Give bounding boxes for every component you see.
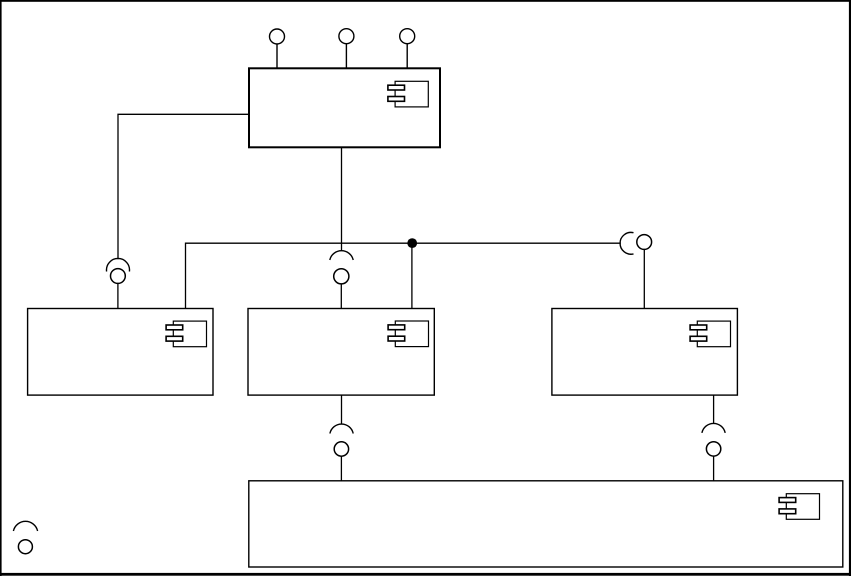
provided interface lollipop 1 stick (top of Component1) [276, 44, 278, 68]
provided interface lollipop 2 stick (top of Component1) [345, 44, 347, 68]
component Component4 (right) [552, 309, 738, 396]
wire ball to Component5 top [713, 456, 715, 481]
wire Component4 bottom down to socket [713, 395, 715, 424]
wire Component1 left side to left connector [118, 114, 248, 259]
provided interface ball (left connector) [111, 269, 126, 284]
wire ball to Component3 top [340, 284, 342, 309]
wire ball to Component2 top [117, 283, 119, 308]
provided interface ball (Component5, left) [334, 442, 348, 456]
provided interface lollipop 3 stick (top of Component1) [406, 44, 408, 68]
required interface socket (bus end, open right) [620, 232, 633, 254]
required interface socket (Component1 to Component3) [330, 251, 353, 260]
wire bus: Component2 top up and right along y=243 [186, 243, 621, 308]
provided interface ball (Component4 top) [637, 235, 652, 250]
component icon (Component4) [690, 321, 730, 347]
wire Component1 bottom down to middle socket [341, 147, 343, 250]
junction node on bus [407, 238, 417, 248]
component icon (Component1) [388, 81, 428, 107]
wire Component3 bottom down to socket [341, 395, 343, 424]
provided interface lollipop 3 ball [400, 29, 415, 44]
provided interface ball (Component5, right) [706, 442, 720, 456]
wire junction down to Component3 top [411, 243, 413, 308]
wire ball to Component4 top [643, 249, 645, 308]
component icon (Component3) [388, 321, 428, 347]
wire ball to Component5 top [340, 456, 342, 481]
required interface socket (Component4 to Component5) [702, 423, 725, 432]
component Component5 (bottom) [249, 481, 843, 567]
provided interface ball (floating, bottom-left) [18, 540, 32, 554]
required interface socket (floating, bottom-left) [13, 521, 37, 531]
component Component1 (top) [249, 68, 440, 147]
required interface socket (left connector) [106, 258, 129, 271]
provided interface ball (Component3 top) [334, 269, 349, 284]
provided interface lollipop 2 ball [339, 29, 354, 44]
component Component2 (left) [28, 309, 213, 396]
component icon (Component2) [166, 321, 206, 347]
component Component3 (middle) [248, 309, 434, 396]
required interface socket (Component3 to Component5) [330, 424, 353, 433]
provided interface lollipop 1 ball [270, 29, 285, 44]
component icon (Component5) [779, 494, 819, 520]
